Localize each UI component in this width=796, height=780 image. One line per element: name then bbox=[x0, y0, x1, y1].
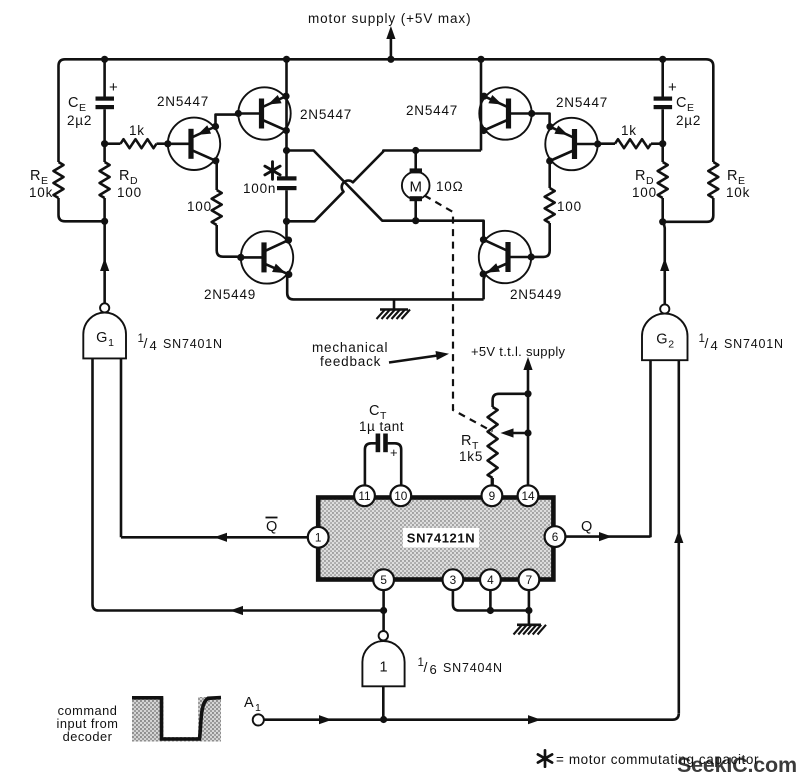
svg-text:10Ω: 10Ω bbox=[436, 179, 464, 194]
wire T1 emitter to T2 base bbox=[216, 115, 239, 127]
+5V vertical wire to pin 14 bbox=[527, 394, 530, 486]
resistor 100 (left) bbox=[187, 190, 241, 257]
A1 wire to G2 right input bbox=[264, 713, 679, 719]
wire T1 collector down to 100 resistor bbox=[215, 161, 218, 190]
NAND gate G1 bbox=[83, 303, 126, 358]
crossing hop on rising diagonal bbox=[287, 151, 482, 222]
transistor Q1 2N5447 bbox=[164, 118, 220, 170]
svg-text:R: R bbox=[30, 168, 40, 184]
resistor RD (right) 100 bbox=[632, 144, 668, 222]
svg-text:4: 4 bbox=[150, 338, 157, 353]
svg-text:G: G bbox=[96, 330, 107, 346]
left mid rail (T2 emitter/collector column) bbox=[285, 59, 288, 96]
svg-text:100n: 100n bbox=[243, 181, 276, 196]
svg-text:2N5449: 2N5449 bbox=[510, 287, 562, 302]
G1 output wire with arrow bbox=[100, 221, 109, 303]
svg-text:C: C bbox=[68, 95, 78, 111]
svg-text:9: 9 bbox=[489, 489, 496, 503]
wire T4 collector down to 100 resistor (right) bbox=[548, 161, 551, 188]
transistor Q5 2N5449 bbox=[479, 231, 535, 283]
svg-text:/: / bbox=[144, 335, 148, 351]
svg-text:1: 1 bbox=[255, 702, 261, 714]
top supply rail bbox=[59, 59, 714, 162]
motor supply stub and arrow bbox=[386, 26, 395, 63]
svg-text:Q: Q bbox=[266, 519, 277, 535]
G2 input wires bbox=[649, 360, 652, 537]
rail junction bbox=[659, 56, 666, 63]
svg-text:2N5449: 2N5449 bbox=[204, 287, 256, 302]
svg-text:R: R bbox=[727, 168, 737, 184]
dashed mechanical feedback line bbox=[425, 196, 493, 432]
+5V t.t.l. supply arrow bbox=[523, 357, 532, 394]
svg-text:motor supply (+5V max): motor supply (+5V max) bbox=[308, 11, 471, 26]
resistor 1k (right) bbox=[597, 123, 662, 148]
svg-text:+5V t.t.l. supply: +5V t.t.l. supply bbox=[471, 344, 566, 359]
svg-text:G: G bbox=[656, 332, 667, 348]
IC SN74121N body bbox=[318, 498, 553, 580]
svg-text:3: 3 bbox=[450, 573, 457, 587]
G1 input wires bbox=[93, 358, 384, 610]
wire T5 collector up to bottom X rail bbox=[482, 221, 485, 241]
G2 output wire with arrow bbox=[660, 222, 669, 305]
resistor RD (left) 100 bbox=[100, 144, 142, 222]
svg-text:1: 1 bbox=[379, 660, 387, 676]
svg-text:mechanical: mechanical bbox=[312, 340, 388, 355]
X-crossing wires bbox=[287, 151, 484, 241]
svg-text:2N5447: 2N5447 bbox=[157, 94, 209, 109]
svg-text:R: R bbox=[461, 433, 471, 449]
capacitor 100n bbox=[243, 162, 297, 196]
pin 9 bbox=[482, 485, 503, 506]
svg-text:6: 6 bbox=[552, 530, 559, 544]
svg-text:2N5447: 2N5447 bbox=[406, 103, 458, 118]
svg-text:4: 4 bbox=[711, 338, 718, 353]
svg-text:100: 100 bbox=[557, 199, 582, 214]
svg-text:SN7401N: SN7401N bbox=[163, 337, 223, 351]
G2 label 1/4 SN7401N bbox=[699, 333, 784, 353]
pin 3 bbox=[443, 569, 464, 590]
rail junction bbox=[477, 56, 484, 63]
svg-text:SeekIC.com: SeekIC.com bbox=[677, 753, 796, 777]
pin stub wires bbox=[491, 478, 494, 486]
svg-text:10: 10 bbox=[394, 489, 408, 503]
pin 11 bbox=[354, 485, 375, 506]
rail junction bbox=[101, 56, 108, 63]
svg-text:14: 14 bbox=[521, 489, 535, 503]
resistor 100 (right) bbox=[532, 188, 582, 257]
pin 10 bbox=[390, 485, 411, 506]
svg-text:10k: 10k bbox=[726, 185, 750, 200]
svg-text:7: 7 bbox=[526, 573, 533, 587]
motor M bbox=[402, 151, 430, 221]
inverter U3 1/6 SN7404N bbox=[362, 631, 404, 686]
ground (pins 3,4,7) bbox=[514, 625, 547, 635]
pin 5 bbox=[373, 569, 394, 590]
wire T3 base to T4 emitter bbox=[531, 114, 549, 127]
svg-text:1: 1 bbox=[315, 531, 322, 545]
svg-text:6: 6 bbox=[430, 662, 437, 677]
svg-text:4: 4 bbox=[487, 573, 494, 587]
svg-text:2N5447: 2N5447 bbox=[300, 107, 352, 122]
svg-text:2µ2: 2µ2 bbox=[67, 113, 92, 128]
Qbar label bbox=[266, 518, 278, 536]
pin 7 bbox=[519, 569, 540, 590]
transistor Q2 2N5447 bbox=[235, 87, 291, 139]
svg-text:5: 5 bbox=[380, 573, 387, 587]
right rail to T3 bbox=[480, 59, 483, 150]
svg-text:Q: Q bbox=[581, 519, 592, 535]
rail junction bbox=[283, 56, 290, 63]
transistor Q3 2N5447 bbox=[479, 87, 535, 139]
svg-text:+: + bbox=[390, 445, 398, 460]
svg-text:1: 1 bbox=[108, 337, 114, 349]
svg-text:1k: 1k bbox=[129, 123, 145, 138]
wire T5 emitter down to ground rail bbox=[484, 276, 485, 300]
resistor 1k (left) bbox=[105, 123, 168, 148]
capacitor CE (right) bbox=[654, 59, 702, 143]
svg-text:100: 100 bbox=[117, 185, 142, 200]
transistor Q6 2N5449 bbox=[237, 231, 293, 283]
svg-text:+: + bbox=[668, 79, 677, 96]
svg-text:SN74121N: SN74121N bbox=[407, 531, 475, 546]
svg-text:1k: 1k bbox=[621, 123, 637, 138]
svg-text:R: R bbox=[635, 168, 645, 184]
capacitor CT 1u tant bbox=[359, 403, 404, 486]
svg-text:SN7401N: SN7401N bbox=[724, 337, 784, 351]
pin 14 bbox=[518, 485, 539, 506]
svg-text:C: C bbox=[369, 403, 379, 419]
G1 label 1/4 SN7401N bbox=[138, 333, 223, 353]
pin 6 bbox=[545, 526, 566, 547]
up arrow on G2 right input bbox=[674, 530, 683, 543]
svg-text:A: A bbox=[244, 695, 254, 711]
svg-text:M: M bbox=[409, 179, 422, 196]
svg-text:R: R bbox=[119, 168, 129, 184]
svg-text:feedback: feedback bbox=[320, 354, 381, 369]
svg-text:2N5447: 2N5447 bbox=[556, 95, 608, 110]
svg-text:100: 100 bbox=[632, 185, 657, 200]
capacitor CE (left) bbox=[67, 59, 118, 143]
svg-text:/: / bbox=[705, 335, 709, 351]
transistor Q4 2N5447 bbox=[545, 118, 601, 170]
command input label bbox=[57, 703, 119, 744]
wire T6 emitter down to ground rail bbox=[287, 275, 483, 300]
svg-text:decoder: decoder bbox=[63, 729, 113, 744]
potentiometer RT 1k5 bbox=[459, 394, 528, 486]
svg-text:2: 2 bbox=[668, 339, 674, 351]
pin 4 bbox=[480, 569, 501, 590]
svg-text:100: 100 bbox=[187, 199, 212, 214]
pin 1 bbox=[308, 527, 329, 548]
waveform graphic bbox=[132, 695, 221, 742]
NAND gate G2 bbox=[642, 304, 688, 360]
feedback pointer arrow bbox=[389, 349, 450, 362]
arrows on A1 line bbox=[319, 715, 332, 724]
svg-text:2µ2: 2µ2 bbox=[676, 113, 701, 128]
svg-text:1µ tant: 1µ tant bbox=[359, 419, 404, 434]
ground (motor bridge) bbox=[377, 299, 411, 319]
arrow on feedback-to-G1 line bbox=[230, 606, 243, 615]
svg-text:10k: 10k bbox=[29, 185, 53, 200]
arrow on Qbar line bbox=[214, 533, 227, 542]
arrow on Q line bbox=[599, 532, 612, 541]
terminal A1 bbox=[244, 695, 264, 726]
svg-text:+: + bbox=[109, 79, 118, 96]
inverter label 1/6 SN7404N bbox=[418, 657, 503, 677]
svg-text:1k5: 1k5 bbox=[459, 449, 483, 464]
note: motor commutating capacitor bbox=[538, 750, 759, 767]
resistor RE (right) 10k bbox=[663, 162, 750, 222]
svg-text:SN7404N: SN7404N bbox=[443, 661, 503, 675]
resistor RE (left) 10k bbox=[29, 162, 105, 221]
svg-text:11: 11 bbox=[358, 489, 370, 503]
svg-text:/: / bbox=[424, 659, 428, 675]
inverter output wire bbox=[382, 686, 385, 719]
svg-text:C: C bbox=[676, 95, 686, 111]
